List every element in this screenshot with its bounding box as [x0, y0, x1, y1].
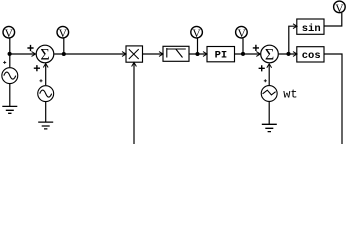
- summer U2: [261, 45, 279, 63]
- wire PI output to summer U2: [235, 53, 260, 55]
- plus label U2 left input: [253, 45, 259, 51]
- wire VS3 to ground G3: [268, 102, 270, 125]
- arrow into U2 bottom: [267, 64, 272, 68]
- wire sin output to voltmeter V5: [324, 13, 342, 26]
- wire AC source VS2 to U1 bottom input: [45, 64, 47, 85]
- arrow into cos: [293, 52, 297, 57]
- svg-text:PI: PI: [215, 49, 228, 61]
- wire J1 to summer U1 input: [10, 53, 35, 55]
- svg-text:cos: cos: [302, 50, 321, 62]
- arrow into U1 bottom: [43, 64, 48, 68]
- svg-text:V: V: [335, 3, 344, 15]
- voltmeter V1: [3, 26, 15, 40]
- cos block COS1: [297, 47, 324, 63]
- voltmeter V2: [57, 26, 69, 40]
- arrow into multiplier bottom: [132, 63, 137, 67]
- svg-text:V: V: [59, 28, 68, 40]
- svg-text:wt: wt: [283, 88, 297, 102]
- wire multiplier bottom input from sheet bottom: [133, 63, 135, 144]
- node J5: [286, 52, 290, 56]
- node J4: [241, 52, 245, 56]
- wire V3 stem: [197, 38, 199, 54]
- wire V4 stem: [242, 38, 244, 54]
- wire V1 stem: [9, 38, 11, 54]
- wire AC source VS3 to U2 bottom input: [268, 65, 270, 86]
- svg-text:V: V: [5, 28, 14, 40]
- arrow into PI: [203, 52, 207, 57]
- svg-text:V: V: [192, 28, 201, 40]
- wire VS1 to ground G1: [9, 84, 11, 107]
- sin block SIN1: [297, 19, 324, 35]
- wire U2 output to cos block: [279, 53, 296, 55]
- AC source VS3: [261, 86, 277, 102]
- plus label U1 bottom input: [34, 65, 40, 71]
- svg-text:Σ: Σ: [265, 46, 274, 63]
- AC source VS2: [38, 86, 54, 102]
- AC source VS1: [2, 68, 18, 84]
- plus polarity VS1: [3, 61, 6, 64]
- arrow into multiplier: [122, 52, 126, 57]
- node J2: [62, 52, 66, 56]
- voltmeter V5: [334, 1, 346, 15]
- plus label U2 bottom input: [259, 65, 265, 71]
- PI controller PI1: [207, 47, 235, 62]
- arrow into U2: [256, 52, 260, 57]
- plus polarity VS3: [264, 79, 267, 82]
- summer U1: [36, 45, 54, 63]
- svg-text:Σ: Σ: [40, 46, 49, 63]
- multiplier M1: [126, 46, 143, 62]
- ground G2: [38, 122, 53, 129]
- wire V2 stem: [63, 38, 65, 54]
- wire VS2 to ground G2: [45, 102, 47, 122]
- arrow into U1: [32, 52, 36, 57]
- wire J1 down to VS1: [9, 54, 11, 67]
- ground G1: [2, 106, 17, 113]
- node J3: [195, 52, 199, 56]
- ground G3: [262, 124, 277, 131]
- svg-text:V: V: [237, 28, 246, 40]
- wire cos output down off sheet: [324, 54, 342, 144]
- wire filter output to PI: [189, 53, 206, 55]
- node J1: [8, 52, 12, 56]
- svg-text:sin: sin: [302, 23, 321, 35]
- arrow into sin: [293, 24, 297, 29]
- voltmeter V3: [191, 26, 203, 40]
- wire J5 up to sin block: [289, 26, 296, 54]
- low-pass filter FLT1: [163, 46, 189, 61]
- voltmeter V4: [236, 26, 248, 40]
- wire multiplier output to filter: [143, 53, 163, 55]
- wire U1 output to multiplier: [54, 53, 125, 55]
- plus polarity VS2: [40, 79, 43, 82]
- plus label U1 left input: [27, 45, 33, 51]
- arrow into filter: [159, 52, 163, 57]
